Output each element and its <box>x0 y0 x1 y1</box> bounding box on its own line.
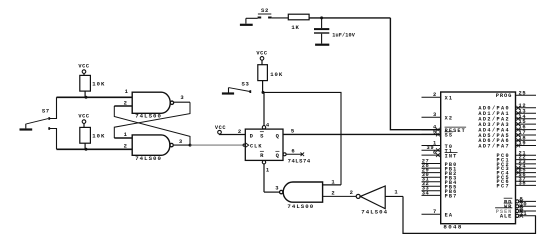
nand gate U1A 74LS00 <box>132 92 173 113</box>
label 74LS00 (U1B) <box>135 155 162 162</box>
pin label 5 (U2 Q) <box>291 128 295 135</box>
wire U2 Q output to 8048 SS pin <box>283 133 441 135</box>
pin 33 PB6 (U5 left) <box>422 186 458 195</box>
svg-text:2: 2 <box>350 189 353 196</box>
svg-text:VCC: VCC <box>78 114 89 120</box>
capacitor C1 1uF/10V <box>314 18 356 44</box>
svg-text:PC7: PC7 <box>496 183 510 189</box>
pin label 6 (U2 Qbar) <box>291 147 294 154</box>
wire S7 lower throw down to bottom rail <box>49 129 56 150</box>
label 74LS04 (U4) <box>361 209 388 216</box>
svg-text:S7: S7 <box>42 108 50 115</box>
pin label 2 (U1A input B) <box>124 100 127 107</box>
pin 16 AD4/PA4 (U5 right) <box>478 125 536 134</box>
switch S2 (pushbutton) <box>258 7 272 17</box>
svg-text:ALE: ALE <box>500 214 512 220</box>
pin label 3 (U3 output) <box>275 185 279 192</box>
svg-text:1uF/10V: 1uF/10V <box>332 32 356 38</box>
power VCC for U2 D input <box>215 125 245 135</box>
pin 18 AD6/PA6 (U5 right) <box>478 135 536 144</box>
wire U4 output down, right, up to 8048 ALE <box>403 196 536 233</box>
pin 39 T1 (U5 left) <box>422 145 454 154</box>
svg-text:8048: 8048 <box>443 224 462 231</box>
svg-text:X2: X2 <box>445 116 454 122</box>
wire U3 pin2 to U4 input <box>323 195 357 197</box>
wire top rail (S7 upper throw to gate U1A pin1) <box>57 96 133 98</box>
svg-text:VCC: VCC <box>215 125 226 131</box>
power VCC symbol for R1 <box>78 64 89 76</box>
wire R4 to corner (reset line) <box>309 17 390 19</box>
pin 38 PC7 (U5 right) <box>496 181 536 190</box>
svg-text:S2: S2 <box>261 7 269 14</box>
flip-flop U2 74LS74 body <box>245 129 283 160</box>
pin 22 PC1 (U5 right) <box>496 155 536 164</box>
pin 34 PB7 (U5 left) <box>422 190 458 199</box>
label 74LS74 (U2) <box>288 157 311 164</box>
pin 15 AD3/PA3 (U5 right) <box>478 119 536 128</box>
pin 23 PC2 (U5 right) <box>496 159 536 168</box>
switch S3 <box>229 81 251 93</box>
node junction bottom rail / R2 <box>85 148 88 151</box>
label 74LS00 (U1A) <box>135 112 162 119</box>
pin 10 WR (U5 right) <box>504 201 536 210</box>
pin label 2 (U1B input B) <box>124 143 127 150</box>
pin 11 ALE (U5 right) <box>500 211 536 220</box>
ground for S7 <box>20 124 33 130</box>
power VCC symbol for R2 <box>78 114 89 128</box>
wire U3 pin1 stub <box>323 184 341 186</box>
svg-text:74LS00: 74LS00 <box>287 203 314 210</box>
pin 35 PC4 (U5 right) <box>496 168 536 177</box>
resistor R3 10K pull-up <box>258 65 283 81</box>
wire U1A pin2 stub <box>114 105 132 107</box>
svg-text:7: 7 <box>433 209 437 215</box>
pin 7 EA (U5 left) <box>422 209 454 218</box>
svg-text:3: 3 <box>433 112 437 118</box>
label Q (U2) <box>276 132 280 139</box>
svg-text:INT: INT <box>445 153 458 159</box>
pin label 1 (U1B input A) <box>124 131 128 138</box>
node junction top rail / R1 <box>85 96 88 99</box>
pin label 1 (U3 input A) <box>331 178 335 185</box>
wire U3 output to U2 R <box>264 191 280 193</box>
wire U4 output stub <box>385 195 403 197</box>
pin 6 bubble wire and no-connect (U2 Qbar) <box>283 153 304 157</box>
pin 4 bubble and wire (U2 S) up to S3 node <box>262 92 265 129</box>
pin 8 RD (U5 right) <box>504 197 536 206</box>
label Qbar (U2) <box>275 151 279 159</box>
pin 21 PC0 (U5 right) <box>496 150 536 159</box>
wire S2 ground to left contact <box>246 17 258 19</box>
wire S3 node to U3 pin1 (right then down) <box>263 92 341 184</box>
svg-text:74LS00: 74LS00 <box>135 112 162 119</box>
wire U1B output to U2 CLK <box>190 144 245 146</box>
ground for C1 <box>315 44 329 46</box>
svg-text:2: 2 <box>238 128 241 135</box>
svg-text:EA: EA <box>445 213 454 219</box>
pin 25 PROG (U5 right) <box>496 90 536 99</box>
pin 17 AD5/PA5 (U5 right) <box>478 130 536 139</box>
pin 19 AD7/PA7 (U5 right) <box>478 141 536 150</box>
resistor R2 10K pull-up <box>80 127 106 143</box>
resistor R1 10K pull-up <box>80 75 106 91</box>
label S with overline (U2) <box>260 132 264 140</box>
pin 32 PB5 (U5 left) <box>422 181 458 190</box>
svg-text:25: 25 <box>519 90 527 96</box>
pin 36 PC5 (U5 right) <box>496 172 536 181</box>
pin 37 PC6 (U5 right) <box>496 176 536 185</box>
pin label 1 (U2 R) <box>266 166 270 173</box>
node junction U1B output <box>189 144 192 147</box>
node junction C1 top <box>320 16 323 19</box>
pin 6 INT (U5 left) <box>422 150 458 159</box>
pin label 1 (U1A input A) <box>125 88 129 95</box>
pin 2 X1 (U5 left) <box>422 92 454 101</box>
node junction S3 / R3 / U2 S <box>262 91 265 94</box>
ground for S3 <box>222 88 234 94</box>
svg-text:SS: SS <box>445 133 454 139</box>
svg-text:PB7: PB7 <box>445 194 458 200</box>
wire S7 upper throw up to top rail <box>49 97 56 118</box>
wire cross-couple U1B.out to U1A.pin2 <box>114 106 190 145</box>
svg-text:10K: 10K <box>92 133 105 140</box>
nand gate U1B 74LS00 <box>132 135 173 155</box>
svg-text:74LS04: 74LS04 <box>361 209 388 216</box>
pin 27 PB0 (U5 left) <box>422 158 458 167</box>
svg-text:10K: 10K <box>270 71 283 78</box>
ground for S2 <box>240 18 253 25</box>
wire bottom rail (S7 lower throw to gate U1B pin2) <box>57 148 133 150</box>
nand gate U3 74LS00 (mirrored, faces left) <box>280 182 323 202</box>
pin 30 PB3 (U5 left) <box>422 172 458 181</box>
pin 13 AD1/PA1 (U5 right) <box>478 108 536 117</box>
svg-text:VCC: VCC <box>78 64 89 70</box>
wire R1 bottom to top rail <box>84 91 86 97</box>
svg-text:PROG: PROG <box>496 93 513 99</box>
svg-text:2: 2 <box>433 92 437 98</box>
pin label 4 (U2 S) <box>266 121 270 128</box>
svg-text:74LS74: 74LS74 <box>288 157 311 164</box>
label R with overline (U2) <box>260 151 264 159</box>
pin label 3 (U1A output) <box>180 94 184 101</box>
pin 29 PB2 (U5 left) <box>422 168 458 177</box>
pin 28 PB1 (U5 left) <box>422 163 458 172</box>
svg-text:10K: 10K <box>92 81 105 88</box>
svg-text:1K: 1K <box>291 24 299 31</box>
microcontroller U5 8048 body <box>441 92 516 224</box>
label D (U2) <box>250 132 254 139</box>
pin 24 PC3 (U5 right) <box>496 163 536 172</box>
pin label 2 (U4 input) <box>350 189 353 196</box>
svg-text:CLK: CLK <box>250 144 263 150</box>
switch S7 (SPDT) <box>26 108 50 130</box>
inverter U4 74LS04 (mirrored, faces left) <box>356 186 385 209</box>
pin 1 bubble and wire (U2 R) down to U3 output <box>262 161 265 193</box>
svg-text:74LS00: 74LS00 <box>135 155 162 162</box>
svg-text:X1: X1 <box>445 96 454 102</box>
svg-text:2: 2 <box>124 143 127 150</box>
pin label 3 (U1B output) <box>179 138 183 145</box>
pin label 1 (U4 output) <box>394 189 398 196</box>
svg-text:2: 2 <box>331 190 334 197</box>
pin 9 PSEN (U5 right) <box>495 206 536 215</box>
pin 1 T0 (U5 left) <box>422 140 454 149</box>
wire R3 bottom to node <box>262 81 264 93</box>
svg-text:38: 38 <box>519 181 527 187</box>
svg-text:VCC: VCC <box>256 51 267 57</box>
pin 12 AD0/PA0 (U5 right) <box>478 103 536 112</box>
pin label 2 (U2 D) <box>238 128 241 135</box>
svg-text:S3: S3 <box>242 81 250 88</box>
resistor R4 1K <box>288 14 309 31</box>
power VCC symbol for R3 <box>256 51 267 65</box>
pin 5 SS (U5 left) <box>422 129 454 138</box>
pin 31 PB4 (U5 left) <box>422 177 458 186</box>
wire U1A output stub <box>174 101 190 103</box>
svg-text:34: 34 <box>422 190 430 196</box>
wire U1B output stub <box>174 144 190 146</box>
svg-text:6: 6 <box>291 147 294 154</box>
svg-text:AD7/PA7: AD7/PA7 <box>478 143 510 149</box>
label 8048 (U5) <box>443 224 462 231</box>
pin 14 AD2/PA2 (U5 right) <box>478 114 536 123</box>
wire S2 to R4 <box>272 17 289 19</box>
pin 3 X2 (U5 left) <box>422 112 454 121</box>
label 74LS00 (U3) <box>287 203 314 210</box>
wire reset line down to 8048 RESET <box>390 18 440 130</box>
pin 4 RESET (U5 left) <box>422 125 467 134</box>
wire R2 bottom to bottom rail <box>84 143 86 149</box>
label CLK (U2) <box>243 143 263 150</box>
pin label 2 (U3 input B) <box>331 190 334 197</box>
wire cross-couple U1A.out to U1B.pin1 <box>114 102 190 138</box>
